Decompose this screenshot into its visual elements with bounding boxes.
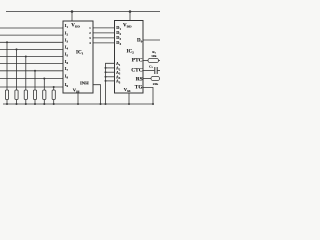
wire PTC pin (143, 60, 148, 62)
wire R7 right lead (159, 60, 161, 62)
wire IC2 VSS to rail (128, 93, 130, 104)
svg-text:I6: I6 (65, 59, 69, 65)
svg-text:VSS: VSS (73, 87, 80, 93)
resistor R7 timing (148, 58, 159, 62)
svg-text:D0: D0 (137, 39, 143, 44)
wire data D4 IC1-IC2 (93, 42, 115, 44)
node junction bus-A5 (105, 80, 107, 82)
svg-text:VDD: VDD (123, 23, 132, 28)
IC U2 box (115, 21, 144, 94)
wire input line I7 (0, 70, 63, 72)
wire TG to ground (143, 88, 153, 105)
wire input line I5 (0, 56, 63, 58)
wire A3 stub (106, 71, 115, 73)
svg-text:A5: A5 (116, 80, 121, 85)
svg-text:3: 3 (89, 36, 91, 40)
capacitor C1 timing (155, 67, 157, 74)
IC U1 box (63, 21, 93, 93)
wire input line I4 (0, 48, 63, 50)
node junction bus-A4 (105, 76, 107, 78)
resistor R8 bias (151, 76, 160, 80)
node junction IC1 VSS-rail (77, 103, 79, 105)
svg-text:C1: C1 (149, 64, 153, 69)
svg-text:4: 4 (89, 41, 91, 45)
node junction bus-A2 (105, 67, 107, 69)
wire input line I6 (0, 63, 63, 65)
svg-text:I2: I2 (65, 30, 69, 36)
svg-text:RS: RS (136, 76, 143, 82)
wire VDD top rail (6, 11, 160, 13)
wire CTC pin (143, 70, 154, 72)
wire input line I3 (0, 41, 63, 43)
wire RS pin (143, 78, 151, 80)
svg-text:INH: INH (80, 80, 89, 85)
svg-text:VDD: VDD (71, 24, 80, 29)
resistor R3 pulldown (24, 55, 27, 105)
wire input line I1 (0, 27, 63, 29)
wire output D0 (143, 39, 160, 41)
ground VSS bottom rail (3, 103, 153, 105)
wire A-pin bus (106, 63, 115, 104)
resistor R5 pulldown (43, 77, 46, 105)
wire A5 stub (106, 80, 115, 82)
svg-text:22k: 22k (153, 82, 158, 86)
svg-text:I7: I7 (65, 66, 69, 72)
svg-text:I5: I5 (65, 52, 69, 58)
svg-text:2: 2 (89, 31, 91, 35)
node junction TG-rail (152, 103, 154, 105)
resistor R6 pulldown (52, 86, 55, 105)
node junction VDD-IC2 (129, 10, 132, 13)
node junction IC2 VSS-rail (128, 103, 130, 105)
node junction bus-A3 (105, 71, 107, 73)
wire C1 right lead (157, 70, 160, 72)
wire INH to ground (93, 85, 101, 104)
resistor R4 pulldown (33, 70, 36, 105)
node junction INH-rail (99, 103, 101, 105)
wire VDD drop to IC2 (129, 12, 131, 21)
svg-text:VSS: VSS (124, 87, 131, 93)
resistor R2 pulldown (15, 48, 18, 105)
svg-text:I1: I1 (65, 23, 69, 29)
svg-text:CTC: CTC (131, 67, 142, 73)
wire input line I9 (0, 86, 63, 88)
svg-text:I8: I8 (65, 74, 69, 80)
svg-text:I9: I9 (65, 82, 69, 88)
wire data D1 IC1-IC2 (93, 27, 115, 29)
svg-text:I4: I4 (65, 45, 69, 51)
wire VDD drop to IC1 (71, 12, 73, 22)
svg-text:IC1: IC1 (76, 51, 84, 56)
svg-text:IC2: IC2 (127, 49, 135, 54)
svg-text:10k: 10k (151, 54, 156, 58)
wire data D2 IC1-IC2 (93, 32, 115, 34)
svg-text:PTC: PTC (132, 57, 143, 63)
wire data D3 IC1-IC2 (93, 37, 115, 39)
svg-text:1: 1 (89, 26, 91, 30)
node junction VDD-IC1 (71, 10, 74, 13)
svg-text:TG: TG (135, 85, 144, 91)
wire input line I2 (0, 34, 63, 36)
wire A4 stub (106, 76, 115, 78)
resistor R1 pulldown (5, 41, 8, 105)
wire A2 stub (106, 67, 115, 69)
wire IC1 VSS to rail (77, 93, 79, 104)
svg-text:I3: I3 (65, 38, 69, 44)
wire input line I8 (0, 78, 63, 80)
node junction bus-rail (104, 103, 106, 105)
